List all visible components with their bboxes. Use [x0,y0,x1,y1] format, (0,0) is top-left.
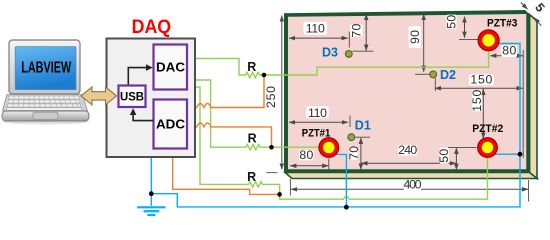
svg-text:80: 80 [299,148,313,162]
svg-text:PZT#3: PZT#3 [487,18,518,30]
svg-text:150: 150 [470,73,492,87]
svg-text:110: 110 [308,106,327,120]
svg-text:70: 70 [347,146,361,160]
svg-text:110: 110 [306,22,325,36]
svg-text:400: 400 [404,178,422,192]
svg-text:USB: USB [120,92,144,104]
svg-text:D3: D3 [322,46,338,60]
svg-text:250: 250 [264,86,278,108]
svg-text:50: 50 [445,15,459,29]
svg-text:R: R [247,60,256,74]
svg-text:R: R [247,170,256,184]
svg-text:90: 90 [408,30,422,44]
svg-text:LABVIEW: LABVIEW [21,60,71,77]
svg-text:5: 5 [532,0,547,14]
svg-text:70: 70 [350,23,364,37]
svg-text:DAC: DAC [156,60,186,75]
svg-text:D1: D1 [355,118,371,132]
svg-text:50: 50 [437,149,451,163]
svg-text:PZT#1: PZT#1 [302,128,331,140]
svg-text:240: 240 [398,143,417,157]
svg-text:PZT#2: PZT#2 [472,123,503,135]
svg-text:ADC: ADC [156,117,186,132]
svg-text:150: 150 [470,90,484,112]
svg-text:R: R [248,131,257,145]
svg-text:DAQ: DAQ [132,16,172,38]
svg-text:80: 80 [502,44,516,58]
svg-text:D2: D2 [440,68,456,82]
